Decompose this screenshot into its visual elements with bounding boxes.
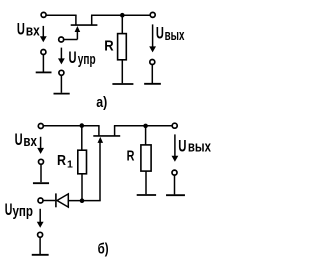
svg-text:U: U [17, 19, 25, 38]
svg-text:вых: вых [188, 139, 211, 156]
svg-text:вх: вх [26, 23, 41, 40]
svg-text:U: U [69, 48, 77, 67]
svg-text:б): б) [98, 241, 109, 258]
svg-text:1: 1 [67, 159, 73, 171]
svg-text:упр: упр [78, 51, 96, 68]
svg-text:R: R [104, 38, 114, 55]
svg-text:вх: вх [23, 133, 37, 150]
svg-text:R: R [57, 153, 66, 169]
svg-text:U: U [178, 136, 186, 155]
svg-text:U: U [15, 130, 23, 149]
svg-text:U: U [156, 24, 164, 43]
svg-text:упр: упр [13, 203, 34, 220]
svg-text:а): а) [96, 94, 107, 111]
svg-text:U: U [5, 200, 13, 219]
svg-text:вых: вых [165, 27, 185, 44]
svg-text:R: R [127, 148, 135, 164]
